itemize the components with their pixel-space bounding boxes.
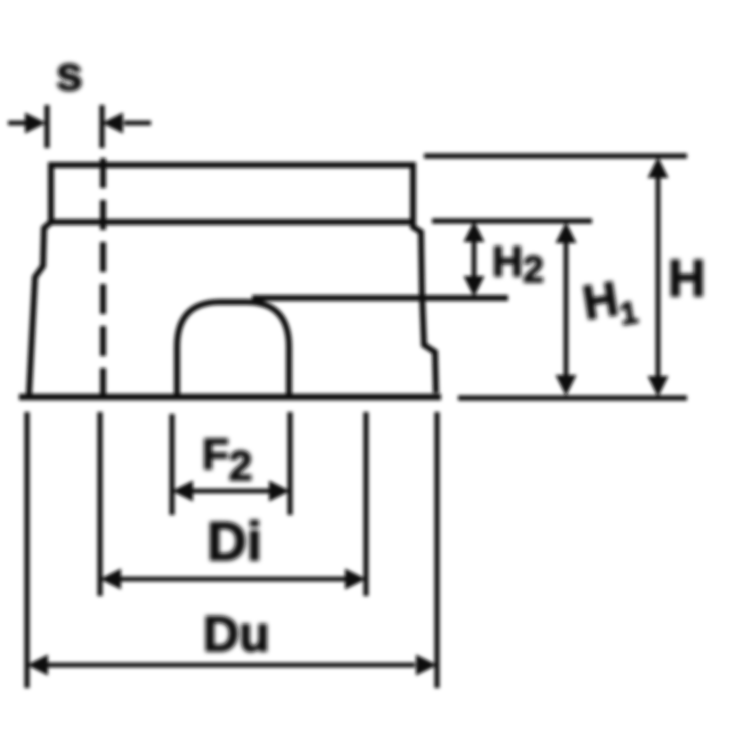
shoulder line bbox=[252, 295, 508, 301]
baseline bbox=[19, 394, 441, 401]
Du dimension line bbox=[45, 663, 415, 668]
F2 left arrowhead bbox=[172, 481, 193, 502]
Du right arrowhead bbox=[416, 655, 437, 676]
svg-text:H1: H1 bbox=[579, 270, 640, 337]
F2 dimension line bbox=[190, 489, 272, 494]
s dimension left arrowhead bbox=[25, 113, 46, 134]
svg-text:H2: H2 bbox=[492, 238, 544, 290]
svg-text:F2: F2 bbox=[202, 430, 252, 489]
Di dimension line bbox=[118, 577, 348, 582]
svg-text:Di: Di bbox=[207, 510, 262, 572]
Di right arrowhead bbox=[345, 569, 366, 590]
H2 bottom arrowhead bbox=[464, 276, 485, 297]
s dimension tick right bbox=[99, 105, 104, 148]
extension tick x=100 (Di left) bbox=[97, 412, 102, 596]
H1 top arrowhead bbox=[556, 222, 577, 243]
baseline extension line (right) bbox=[458, 395, 687, 400]
F2 right arrowhead bbox=[269, 481, 290, 502]
extension tick x=437 (Du right) bbox=[434, 412, 439, 688]
svg-text:s: s bbox=[56, 48, 83, 101]
s dimension right tail bbox=[124, 121, 151, 126]
extension tick x=290 (F2 right) bbox=[287, 412, 292, 515]
top extension line (H) bbox=[424, 153, 687, 158]
left body edge bbox=[29, 222, 51, 394]
extension tick x=366 (Di right) bbox=[363, 412, 368, 596]
Di left arrowhead bbox=[100, 569, 121, 590]
H bottom arrowhead bbox=[648, 376, 669, 397]
s dimension left tail bbox=[8, 121, 26, 126]
s dimension right arrowhead bbox=[102, 113, 123, 134]
right body edge bbox=[413, 222, 436, 393]
H top arrowhead bbox=[648, 157, 669, 178]
extension tick x=172 (F2 left) bbox=[169, 414, 174, 515]
H2 dimension line bbox=[472, 234, 477, 285]
H1 bottom arrowhead bbox=[556, 375, 577, 396]
H2 top arrowhead bbox=[464, 221, 485, 242]
s dimension tick left bbox=[44, 105, 49, 148]
extension tick x=27 (Du left) bbox=[24, 412, 29, 688]
collar-bottom extension line (H2/H1) bbox=[432, 218, 592, 223]
H1 dimension line bbox=[564, 236, 569, 382]
svg-text:Du: Du bbox=[203, 606, 270, 662]
H dimension line bbox=[656, 172, 661, 382]
dashed wall line bbox=[100, 158, 106, 397]
svg-text:H: H bbox=[668, 250, 706, 308]
Du left arrowhead bbox=[27, 655, 48, 676]
collar (top band rectangle of body) bbox=[51, 165, 413, 222]
arch (inner cavity dome) bbox=[177, 302, 289, 397]
